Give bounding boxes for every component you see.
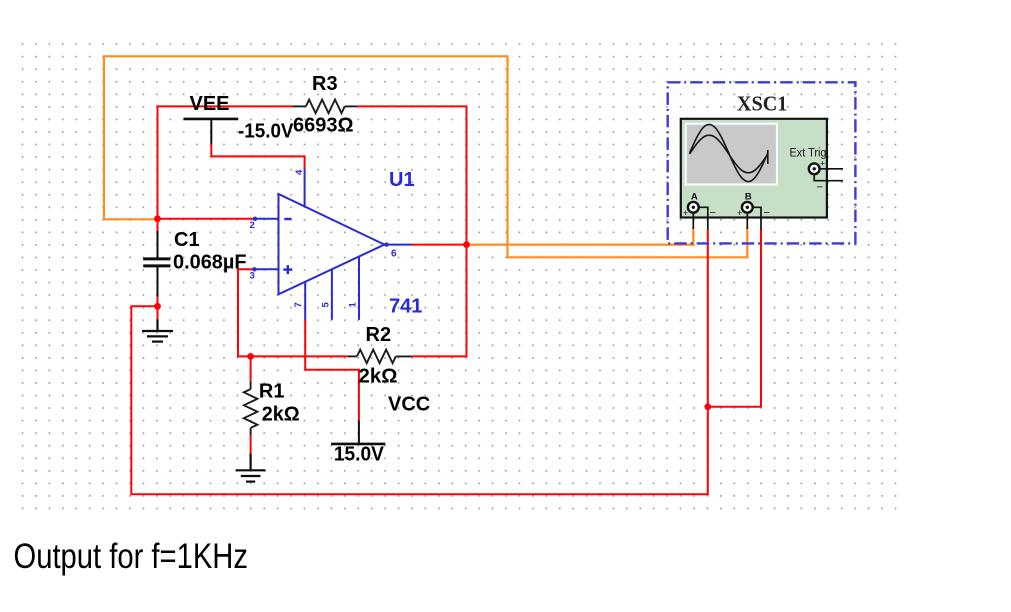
svg-text:R3: R3 bbox=[312, 73, 338, 95]
svg-text:0.068µF: 0.068µF bbox=[173, 252, 247, 274]
waveform end tick bbox=[767, 150, 769, 164]
svg-text:A: A bbox=[691, 191, 698, 202]
svg-text:VCC: VCC bbox=[388, 394, 430, 416]
svg-text:2: 2 bbox=[250, 220, 255, 231]
terminal Ext Trig with pins bbox=[809, 159, 843, 194]
svg-text:6693Ω: 6693Ω bbox=[293, 115, 354, 137]
wire red op-amp output segment bbox=[412, 244, 468, 246]
wire red R1 bottom stub to ground bbox=[250, 436, 252, 454]
wire red R3 right down to output node bbox=[357, 106, 466, 244]
svg-text:+: + bbox=[683, 208, 688, 218]
svg-text:U1: U1 bbox=[389, 169, 415, 191]
node inverting input junction bbox=[154, 215, 161, 222]
oscilloscope screen bbox=[685, 123, 778, 186]
svg-text:15.0V: 15.0V bbox=[334, 444, 385, 466]
svg-text:3: 3 bbox=[250, 271, 255, 282]
wire orange stub to inverting node junction bbox=[104, 218, 157, 220]
wire red C1 bottom to ground node bbox=[157, 297, 159, 307]
wire red op-amp pin 3 down to R1 node bbox=[238, 269, 254, 356]
svg-text:−: − bbox=[817, 182, 823, 194]
wire red long ground run to scope A- bbox=[131, 230, 708, 494]
svg-text:2kΩ: 2kΩ bbox=[359, 366, 398, 388]
svg-text:4: 4 bbox=[294, 169, 305, 175]
ground at R1 bbox=[236, 454, 266, 482]
wire red R2 right up to output node bbox=[412, 245, 467, 357]
node scope ground junction bbox=[704, 403, 711, 410]
wire red inverting node up to R3 left bbox=[158, 106, 293, 218]
wire red R1 node to R2 left bbox=[251, 355, 348, 357]
waveform channel A bbox=[690, 124, 768, 181]
terminal scope channel B bbox=[737, 191, 770, 230]
source VCC bbox=[331, 420, 385, 444]
svg-text:-15.0V: -15.0V bbox=[238, 121, 294, 143]
svg-text:6: 6 bbox=[391, 249, 397, 260]
svg-text:2kΩ: 2kΩ bbox=[262, 404, 300, 426]
wire red ground node stub down bbox=[157, 306, 159, 319]
op-amp U1 triangle with input/output/supply pins bbox=[252, 169, 411, 320]
ground at C1 bbox=[142, 320, 173, 342]
resistor R2 bbox=[348, 350, 412, 364]
wire orange output node to scope A+ bbox=[468, 229, 694, 245]
svg-text:1: 1 bbox=[348, 302, 359, 308]
svg-text:+: + bbox=[737, 208, 742, 218]
resistor R3 bbox=[293, 100, 358, 114]
svg-text:R1: R1 bbox=[259, 381, 285, 403]
svg-text:R2: R2 bbox=[366, 324, 392, 346]
node output junction bbox=[463, 241, 470, 248]
resistor R1 bbox=[244, 381, 258, 435]
wire red VEE source to op-amp pin 4 bbox=[211, 144, 304, 169]
svg-text:XSC1: XSC1 bbox=[737, 92, 788, 116]
wire red scope B- down to ground run junction bbox=[708, 230, 761, 407]
svg-text:+: + bbox=[820, 159, 825, 169]
svg-text:C1: C1 bbox=[174, 229, 200, 251]
svg-text:Output for f=1KHz: Output for f=1KHz bbox=[14, 537, 249, 576]
capacitor C1 bbox=[143, 231, 170, 297]
wire red stub node to C1 top bbox=[157, 219, 159, 231]
svg-text:741: 741 bbox=[389, 295, 422, 317]
node C1 ground junction bbox=[154, 303, 161, 310]
wire red R1 top stub bbox=[250, 356, 252, 381]
terminal scope channel A bbox=[683, 191, 716, 230]
svg-text:B: B bbox=[745, 191, 752, 202]
wire red op-amp pin 7 to VCC source bbox=[305, 320, 359, 421]
svg-text:VEE: VEE bbox=[190, 93, 230, 115]
svg-text:−: − bbox=[710, 207, 716, 219]
svg-text:−: − bbox=[764, 207, 770, 219]
node R1 top junction bbox=[247, 353, 254, 360]
wire orange B-channel loop (inverting node to scope B+) bbox=[104, 56, 747, 257]
wire red inverting node to op-amp pin 2 bbox=[158, 218, 256, 220]
oscilloscope XSC1 dashed selection frame bbox=[668, 82, 856, 243]
waveform channel B bbox=[690, 135, 768, 173]
source VEE bbox=[184, 119, 239, 144]
oscilloscope XSC1 body bbox=[681, 119, 827, 218]
svg-text:7: 7 bbox=[293, 302, 304, 307]
svg-text:5: 5 bbox=[321, 302, 332, 308]
